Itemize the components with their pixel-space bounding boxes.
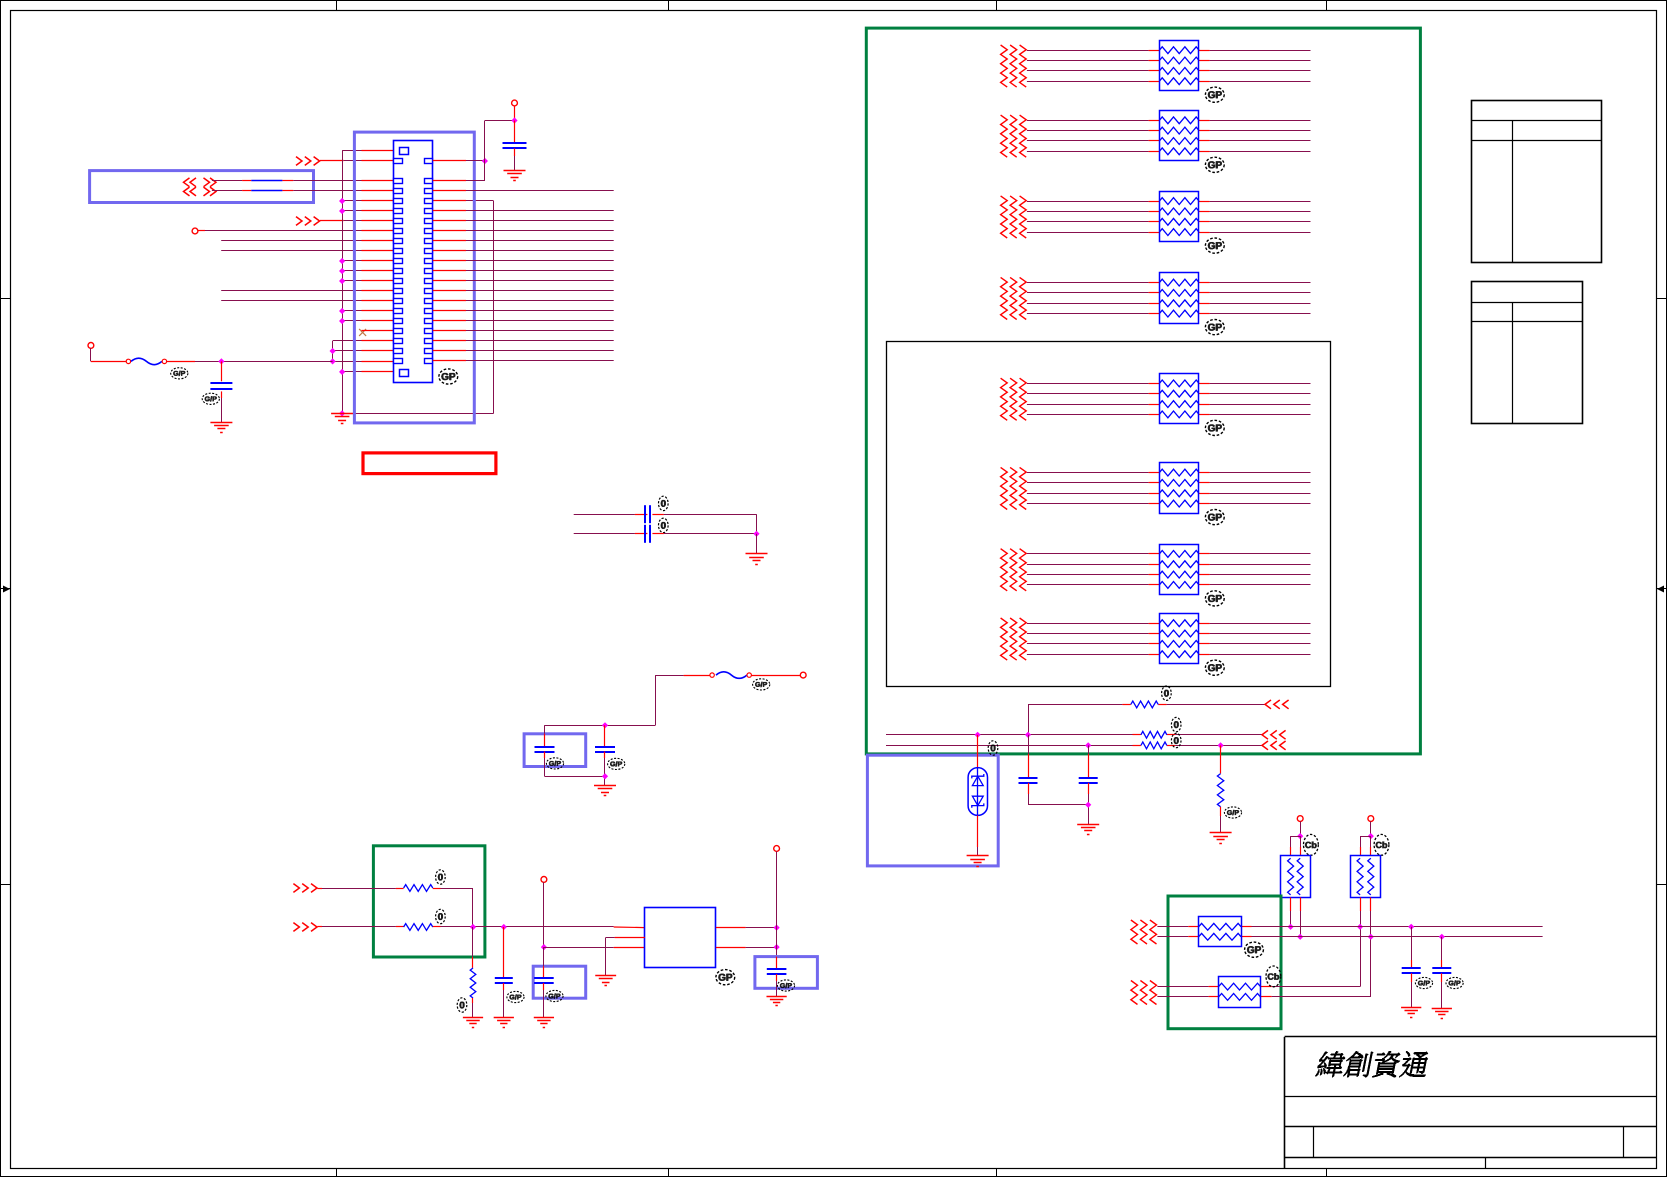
resistor pack RP1: [1159, 41, 1199, 91]
wire U2 right2: [716, 944, 780, 950]
wire mid2b: [652, 531, 759, 554]
resistor pack RP6: [1159, 463, 1199, 514]
capacitor C4: [644, 525, 646, 543]
label C9: [777, 980, 794, 991]
ground TVS: [967, 856, 989, 867]
wire RP9 down: [1288, 897, 1304, 940]
wire F2 left: [545, 675, 710, 725]
resistor R5: [1141, 731, 1167, 738]
wire stub row281: [339, 278, 394, 284]
wire lineA: [1028, 704, 1266, 734]
wire left row291: [221, 290, 394, 292]
wire U2 left mid: [606, 938, 645, 976]
green box A: [373, 846, 485, 957]
resistor pack RP8: [1159, 614, 1199, 664]
arrow lineB: [1262, 730, 1286, 739]
wire RP10 down: [1357, 897, 1374, 997]
wire U2 right1: [716, 925, 780, 931]
connector J1 right pins: [425, 159, 433, 364]
resistor R4: [1131, 701, 1158, 708]
label RP1: [1205, 87, 1224, 102]
wire row1: [1157, 924, 1542, 930]
wire net2 to pin row 191: [212, 190, 394, 192]
wire P2: [1360, 822, 1374, 856]
company name text: [1315, 1051, 1431, 1078]
capacitor C5 box: [524, 734, 586, 767]
label C7: [507, 991, 524, 1002]
terminal mid: [541, 877, 547, 883]
wire row2: [1157, 934, 1542, 940]
capacitor C2: [503, 106, 527, 170]
resistor R6: [1141, 742, 1167, 749]
net name marks (obfuscated): [184, 178, 217, 196]
resistor R1: [404, 885, 433, 892]
ground U2: [595, 976, 616, 986]
capacitor C7: [495, 927, 513, 1017]
wire row201 right drop: [339, 201, 494, 417]
wires RP3: [1027, 202, 1311, 233]
net marks RP5: [1001, 378, 1027, 420]
wire row4: [1157, 996, 1370, 998]
arrow row927: [293, 923, 322, 932]
wire row927: [322, 926, 404, 928]
wire row181 right: [433, 121, 515, 182]
label RP4: [1205, 320, 1224, 335]
wire mid1: [574, 514, 648, 516]
label R6: [1171, 733, 1181, 747]
capacitor C9 box: [755, 957, 818, 989]
wires RP1: [1027, 51, 1311, 82]
ground C9: [766, 997, 786, 1006]
wire stub row271: [339, 268, 394, 274]
wires RP8: [1027, 624, 1311, 655]
ground C10C11: [1077, 825, 1099, 835]
wire left row241: [221, 240, 394, 242]
terminal row231: [192, 228, 394, 234]
wire stub row261: [339, 258, 394, 264]
wires RP4: [1027, 283, 1311, 314]
fuse F1: [126, 358, 166, 365]
arrow lineC: [1262, 741, 1286, 750]
label C6: [608, 758, 625, 769]
connector J1 pin40 marker: [400, 370, 409, 377]
net marks RP12: [1131, 981, 1157, 1005]
resistor R3: [470, 927, 476, 1017]
label RP10: [1374, 834, 1389, 855]
TVS diode D1: [968, 735, 987, 856]
wires RP2: [1027, 121, 1311, 152]
net marks RP8: [1001, 618, 1027, 660]
capacitor C9: [767, 957, 787, 997]
resistor R7: [1217, 745, 1223, 832]
label RP8: [1205, 660, 1224, 675]
wire term-mid down: [541, 882, 645, 950]
net marks RP7: [1001, 549, 1027, 591]
connector J1 left pins: [394, 159, 403, 364]
green box B: [866, 28, 1420, 754]
net marks RP4: [1001, 277, 1027, 319]
black box: [887, 342, 1331, 687]
label C12: [1415, 977, 1432, 988]
ground connector: [331, 414, 353, 424]
wire F1 left: [91, 348, 127, 361]
label RP2: [1205, 157, 1224, 172]
wires RP5: [1027, 384, 1311, 415]
label R2: [436, 909, 446, 923]
wire lineB: [886, 732, 1263, 738]
wire net1 to pin row 181: [212, 180, 394, 182]
label C5: [546, 758, 563, 769]
resistor pack RP9: [1281, 856, 1311, 898]
wire term-right down: [776, 851, 778, 927]
revision table 1: [1471, 101, 1601, 263]
wire stub row211: [339, 208, 394, 214]
ground C1: [210, 423, 232, 433]
wire row161 right: [433, 158, 488, 164]
label R4: [1162, 686, 1172, 700]
wire left row251: [221, 250, 394, 252]
label RP11: [1245, 942, 1264, 957]
green box C: [1168, 896, 1281, 1029]
capacitor C11: [1079, 745, 1098, 824]
net marks RP3: [1001, 196, 1027, 238]
wire rows341-361 tie: [330, 341, 394, 365]
no-connect X row331: [359, 329, 394, 336]
ground C2: [504, 171, 526, 181]
ground C13: [1432, 1009, 1452, 1019]
label R1: [436, 870, 446, 884]
label U2: [716, 970, 735, 985]
wire stub top marker: [342, 150, 399, 152]
capacitor C6: [595, 722, 615, 785]
resistor pack RP5: [1159, 374, 1199, 424]
net marks RP1: [1001, 45, 1027, 87]
terminal C2: [512, 100, 518, 106]
label RP3: [1205, 238, 1224, 253]
connector J1 body: [394, 141, 433, 383]
ground R7: [1210, 833, 1232, 844]
label C3: [659, 496, 669, 510]
wire row3: [1157, 986, 1360, 988]
label F1: [171, 368, 188, 379]
ground F2: [594, 786, 616, 796]
capacitor C8: [534, 947, 554, 1017]
label RP9: [1304, 834, 1319, 855]
capacitor C1: [210, 361, 232, 422]
wire F2 right: [751, 675, 800, 677]
revision table 2: [1471, 282, 1582, 424]
off-page arrow row221: [296, 217, 394, 226]
TVS box: [867, 755, 998, 866]
net marks RP11: [1131, 920, 1157, 944]
title block frame: [1285, 1037, 1657, 1169]
wire stub row321: [339, 318, 394, 324]
resistor pack RP10: [1351, 856, 1381, 898]
wires RP6: [1027, 473, 1311, 504]
net marks RP6: [1001, 467, 1027, 509]
resistor pack RP3: [1159, 192, 1199, 242]
wire stub row201: [339, 198, 394, 204]
resistor pack RP7: [1159, 545, 1199, 595]
wire bus J1 right: [433, 191, 614, 361]
transformer U2: [645, 908, 716, 968]
wire gnd vertical: [342, 151, 344, 414]
label RP6: [1205, 509, 1224, 524]
ground C12: [1401, 1008, 1421, 1018]
terminal F1: [88, 343, 94, 349]
wire row888: [322, 888, 404, 890]
net marks RP2: [1001, 115, 1027, 157]
terminal P1: [1297, 816, 1303, 822]
terminal P2: [1368, 816, 1374, 822]
net label box: [90, 171, 314, 203]
label R5: [1171, 717, 1181, 731]
connector J1 pin1 marker: [400, 148, 409, 155]
resistor R2: [404, 924, 433, 931]
label TVS: [988, 741, 998, 755]
resistor pack RP11: [1199, 917, 1242, 947]
resistor pack RP2: [1159, 111, 1199, 161]
resistor pack RP4: [1159, 273, 1199, 324]
arrow lineA: [1265, 700, 1289, 709]
wire stub bottom marker: [339, 369, 399, 375]
ground C8: [534, 1018, 554, 1028]
label R3: [457, 998, 467, 1012]
label F2: [753, 679, 770, 690]
capacitor C8 box: [533, 966, 586, 998]
capacitor C12: [1402, 927, 1421, 1008]
wire gnd horizontal: [342, 413, 494, 415]
wire row927b: [433, 924, 645, 930]
label C8: [546, 990, 563, 1001]
wire F1 right: [167, 358, 333, 364]
capacitor C10: [1019, 735, 1089, 805]
wire left row301: [221, 300, 394, 302]
wire row888b: [433, 888, 473, 927]
wire mid1b: [652, 514, 756, 534]
label C13: [1446, 977, 1463, 988]
connector outer box: [354, 132, 474, 423]
ground R3: [463, 1018, 483, 1028]
label C4: [659, 518, 669, 532]
terminal F2: [800, 672, 806, 678]
off-page arrow row161: [296, 157, 394, 166]
label J1: [439, 369, 458, 384]
ground C7: [494, 1018, 514, 1028]
fuse F2: [710, 672, 752, 679]
label RP5: [1205, 420, 1224, 435]
arrow row888: [293, 884, 322, 893]
label RP7: [1205, 591, 1224, 606]
terminal right: [774, 846, 780, 852]
capacitor C13: [1432, 937, 1451, 1009]
ground mid: [746, 554, 768, 565]
wire P1: [1291, 822, 1304, 856]
wires RP7: [1027, 554, 1311, 585]
label R7: [1224, 807, 1241, 818]
capacitor C5: [535, 725, 606, 776]
wire lineC: [886, 742, 1263, 748]
wire mid2: [574, 533, 648, 535]
resistor pack RP12: [1219, 977, 1261, 1008]
callout box: [363, 453, 496, 474]
label RP12: [1266, 966, 1281, 987]
wire stub row311: [339, 308, 394, 314]
capacitor C3: [644, 505, 646, 523]
label C1: [202, 393, 219, 404]
